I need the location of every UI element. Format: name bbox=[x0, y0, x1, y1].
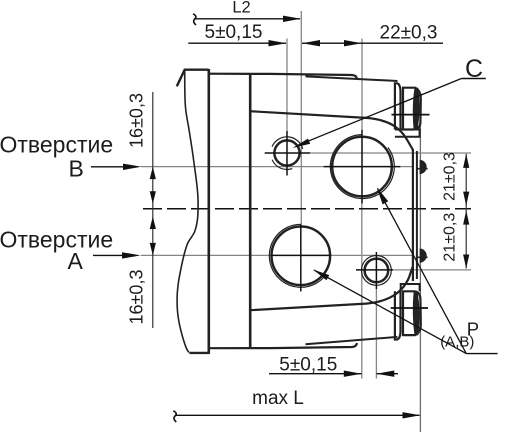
hole C circle bbox=[274, 140, 299, 165]
svg-text:Отверстие: Отверстие bbox=[0, 227, 113, 253]
bolt centerline bottom bbox=[391, 307, 428, 309]
hole A crosshair bbox=[271, 254, 331, 256]
node line hole A horizontal bbox=[141, 254, 271, 256]
hole C crosshair bbox=[265, 152, 310, 154]
svg-text:Отверстие: Отверстие bbox=[0, 132, 113, 158]
node line hole B horizontal bbox=[141, 166, 324, 168]
housing front face bbox=[249, 74, 252, 348]
extension line x=376.4 (hole P vertical, bottom 5-dim) bbox=[375, 289, 377, 379]
hole P crosshair bbox=[356, 269, 393, 271]
svg-text:21±0,3: 21±0,3 bbox=[442, 152, 459, 201]
svg-text:16±0,3: 16±0,3 bbox=[127, 270, 147, 325]
bolt washer plate top bbox=[395, 130, 420, 137]
hole A face bump bbox=[420, 249, 427, 263]
hole B crosshair bbox=[324, 166, 401, 168]
node line hole P horizontal bbox=[393, 269, 471, 271]
svg-text:P: P bbox=[467, 318, 479, 339]
svg-text:5±0,15: 5±0,15 bbox=[279, 355, 337, 376]
dimension line right 21/21 bbox=[465, 154, 467, 269]
housing top edge bbox=[209, 74, 357, 79]
wire wavy break line left bbox=[177, 70, 198, 353]
bolt centerline top bbox=[392, 114, 430, 116]
svg-text:L2: L2 bbox=[232, 0, 250, 16]
cover top profile bbox=[250, 111, 413, 150]
bolt washer plate bottom bbox=[401, 284, 420, 291]
svg-text:A: A bbox=[68, 248, 84, 274]
hole P circle bbox=[365, 259, 389, 283]
svg-text:B: B bbox=[69, 155, 84, 181]
svg-text:21±0,3: 21±0,3 bbox=[442, 213, 459, 262]
housing rear bottom edge bbox=[306, 337, 398, 344]
svg-text:5±0,15: 5±0,15 bbox=[205, 22, 263, 43]
mounting face lines bbox=[412, 149, 414, 281]
svg-text:22±0,3: 22±0,3 bbox=[380, 23, 438, 44]
bolt head top (hex, side view) bbox=[403, 88, 421, 130]
extension line x=301.5 (hole A vertical, L2 / 5-dim right) bbox=[300, 11, 302, 224]
cover bottom profile bbox=[250, 267, 412, 310]
bolt washer top bbox=[395, 83, 401, 129]
dimension line left 16/16 bbox=[152, 92, 154, 328]
extension line x=362 (hole B vertical, 22-dim right) bbox=[361, 39, 363, 130]
bolt head bottom bbox=[403, 291, 421, 335]
hole B face bump bbox=[420, 160, 427, 174]
bolt washer bottom bbox=[395, 291, 401, 339]
bolt head facet lens top bbox=[413, 88, 419, 129]
centerline (dash-dot axis) bbox=[143, 208, 471, 210]
housing bottom edge bbox=[210, 343, 357, 348]
hole B circle bbox=[332, 137, 392, 197]
flange front section outline bbox=[177, 70, 209, 87]
svg-text:16±0,3: 16±0,3 bbox=[127, 93, 147, 148]
node line hole C horizontal bbox=[310, 152, 471, 154]
housing rear top edge bbox=[306, 76, 398, 81]
svg-text:max L: max L bbox=[252, 388, 304, 409]
extension line x=287 (hole C vertical, top 5-dim left) bbox=[286, 39, 288, 132]
bolt head facet lens bottom bbox=[413, 292, 419, 335]
extension line x=420.4 (max L right) bbox=[419, 98, 421, 432]
hole A circle bbox=[272, 227, 331, 286]
